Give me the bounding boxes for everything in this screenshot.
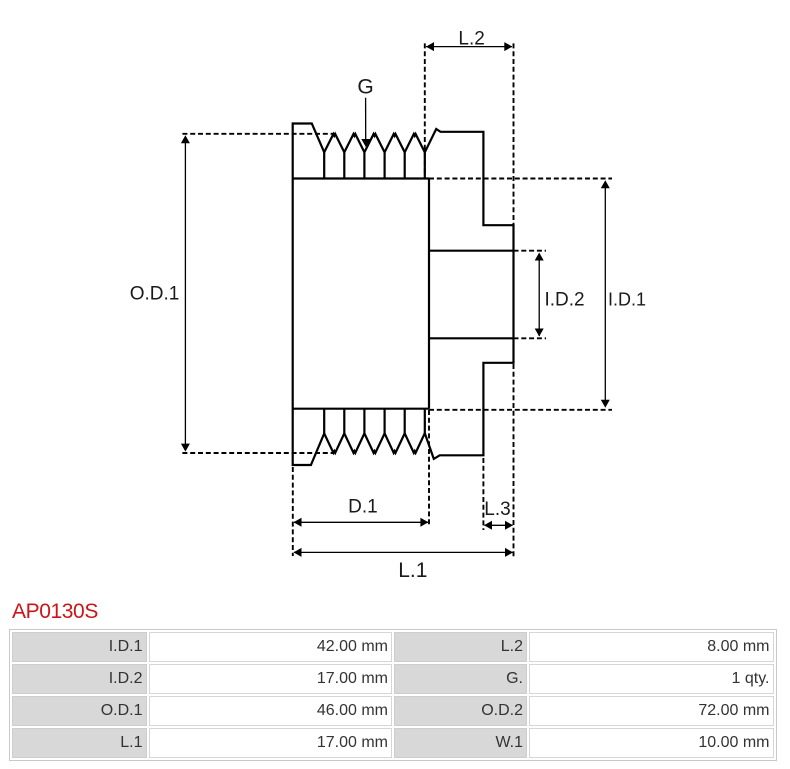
O.D.1 dimension line xyxy=(184,138,186,449)
L.2 / L.1 extension line right (hub edge) xyxy=(513,43,515,225)
groove verticals bottom xyxy=(324,409,425,434)
D.1 extension line left xyxy=(292,467,294,556)
G leader line xyxy=(365,98,367,141)
I.D.2 dimension line xyxy=(538,254,540,336)
bore top line xyxy=(429,250,514,252)
svg-text:L.2: L.2 xyxy=(458,29,484,50)
I.D.2 extension line bottom xyxy=(514,337,547,339)
L.2 arrowhead left xyxy=(426,42,434,51)
O.D.1 arrowhead bottom xyxy=(181,444,190,452)
I.D.2 extension line top xyxy=(514,250,547,252)
svg-text:L.3: L.3 xyxy=(484,499,510,520)
D.1 dimension line xyxy=(294,521,428,523)
svg-text:L.1: L.1 xyxy=(398,559,427,582)
I.D.2 arrowhead bottom xyxy=(535,329,544,337)
svg-text:D.1: D.1 xyxy=(348,497,378,518)
pulley technical drawing xyxy=(0,0,790,598)
O.D.1 extension line top xyxy=(182,133,335,135)
dimensions table xyxy=(9,629,777,761)
I.D.1 extension line top xyxy=(429,178,612,180)
L.3 extension line left xyxy=(482,458,484,530)
D.1 arrowhead left xyxy=(294,518,302,527)
I.D.1 extension line bottom xyxy=(429,409,612,411)
body right edge xyxy=(428,179,430,409)
svg-text:O.D.1: O.D.1 xyxy=(130,284,180,305)
I.D.1 dimension line xyxy=(604,182,606,406)
L.1 arrowhead right xyxy=(505,548,513,557)
O.D.1 arrowhead top xyxy=(181,135,190,143)
L.3 arrowhead right xyxy=(505,521,513,530)
G leader arrowhead xyxy=(361,139,370,147)
D.1 arrowhead right xyxy=(420,518,428,527)
L.1 dimension line xyxy=(294,551,513,553)
svg-text:G: G xyxy=(357,75,373,98)
pulley outer profile xyxy=(293,124,514,466)
svg-text:I.D.2: I.D.2 xyxy=(545,290,585,311)
rib base line bottom xyxy=(293,408,429,410)
D.1 extension line right xyxy=(428,410,430,527)
L.2 extension line left xyxy=(424,43,426,176)
I.D.1 arrowhead top xyxy=(601,180,610,188)
I.D.2 arrowhead top xyxy=(535,253,544,261)
L.1 arrowhead left xyxy=(294,548,302,557)
part number xyxy=(12,600,98,624)
groove verticals top xyxy=(324,152,425,178)
bore bottom line xyxy=(429,337,514,339)
svg-text:I.D.1: I.D.1 xyxy=(608,290,646,310)
L.2 dimension line xyxy=(426,46,512,48)
rib base line top xyxy=(293,177,429,179)
L.3 / L.1 extension line right xyxy=(513,364,515,558)
I.D.1 arrowhead bottom xyxy=(601,400,610,408)
L.3 dimension line xyxy=(485,524,513,526)
L.2 arrowhead right xyxy=(504,42,512,51)
O.D.1 extension line bottom xyxy=(182,452,333,454)
L.3 arrowhead left xyxy=(484,521,492,530)
